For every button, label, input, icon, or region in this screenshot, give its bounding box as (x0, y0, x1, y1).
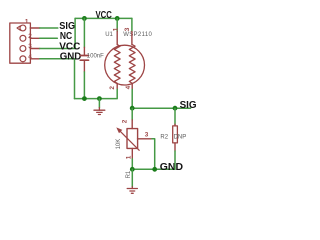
U1 sense coil right (129, 45, 135, 84)
svg-text:DNP: DNP (174, 134, 187, 140)
connector pin 4 stub (30, 58, 40, 60)
junction cap-VCC (82, 16, 87, 21)
junction pot gnd (130, 167, 135, 172)
wire gnd stub (98, 99, 100, 108)
svg-text:2: 2 (28, 33, 32, 40)
connector pin 3 circle (20, 46, 26, 52)
pot R1 pin 2 (131, 120, 133, 129)
resistor R2 body (173, 126, 178, 143)
wire SIG row (40, 27, 58, 29)
wire bottom gnd row (132, 168, 175, 170)
connector pin 4 circle (20, 56, 26, 62)
resistor R2 pin 2 (174, 143, 176, 151)
junction R2 top (173, 106, 178, 111)
svg-text:R2: R2 (160, 134, 168, 140)
junction wiper gnd (152, 167, 157, 172)
U1 heater coil left (114, 45, 120, 84)
svg-text:4: 4 (125, 85, 132, 89)
ground symbol upper (94, 108, 105, 115)
potentiometer R1 wiper arrow (119, 130, 139, 150)
capacitor C1 100nF plates (80, 55, 88, 57)
wire pot pin1 to gnd (131, 159, 133, 169)
pot R1 pin 3 wiper (138, 138, 152, 140)
connector J1 body (10, 23, 31, 63)
junction cap gnd (82, 96, 87, 101)
U1 pin 3 (131, 31, 133, 44)
wire R2 top (174, 108, 176, 124)
svg-text:WSP2110: WSP2110 (123, 32, 152, 38)
connector pin 1 circle (20, 25, 26, 31)
connector pin 2 circle (20, 35, 26, 41)
svg-text:1: 1 (125, 155, 132, 159)
svg-text:3: 3 (145, 132, 149, 139)
junction gnd symbol (97, 96, 102, 101)
wire pot pin2 (131, 108, 133, 120)
wire cap top lead (83, 18, 85, 47)
wire wiper to gnd row (152, 139, 155, 170)
svg-text:100nF: 100nF (87, 54, 104, 60)
wire cap bottom lead (83, 72, 85, 99)
wire NC row (40, 37, 58, 39)
svg-text:3: 3 (124, 27, 131, 31)
connector pin 3 stub (30, 48, 40, 50)
wire gnd stub 2 (131, 169, 133, 187)
svg-text:1: 1 (25, 18, 29, 25)
junction U1 pin1 (115, 16, 120, 21)
svg-text:U1: U1 (105, 32, 113, 38)
op gas sensor U1 circle (105, 45, 145, 85)
potentiometer R1 body (127, 129, 138, 149)
capacitor C1 pin 2 (83, 61, 85, 72)
svg-text:GND: GND (160, 162, 183, 173)
svg-text:VCC: VCC (96, 10, 113, 21)
svg-text:3: 3 (28, 43, 32, 50)
svg-text:2: 2 (109, 86, 116, 90)
wire GND row (40, 59, 75, 99)
svg-text:10K: 10K (116, 139, 122, 150)
wire U1 pin2 to gnd row (99, 89, 117, 98)
ground symbol lower (127, 187, 137, 194)
pot R1 pin 1 (131, 148, 133, 159)
wire U1 pin1 top (116, 18, 118, 31)
wire U1 pin4 to SIG row (131, 89, 133, 108)
wire SIG row right (132, 107, 190, 109)
U1 pin 4 (131, 83, 133, 89)
connector pin 2 stub (30, 37, 40, 39)
svg-text:GND: GND (60, 52, 82, 63)
svg-text:4: 4 (28, 54, 32, 61)
connector pin 1 stub (30, 27, 40, 29)
U1 pin 1 (116, 31, 118, 44)
svg-text:2: 2 (122, 119, 129, 123)
resistor R2 pin 1 (174, 124, 176, 126)
svg-text:1: 1 (113, 27, 120, 31)
U1 pin 2 (116, 83, 118, 89)
svg-text:SIG: SIG (180, 100, 197, 111)
wire R2 bottom (174, 151, 176, 169)
wire U1 pin3 top (131, 18, 133, 31)
junction pot/U1 pin4 (130, 106, 135, 111)
capacitor C1 pin 1 (83, 47, 85, 55)
wire VCC top (75, 17, 132, 19)
wire VCC row (40, 18, 75, 48)
connector pin 1 arrow marker (17, 26, 20, 31)
wire gnd row left (75, 98, 100, 100)
